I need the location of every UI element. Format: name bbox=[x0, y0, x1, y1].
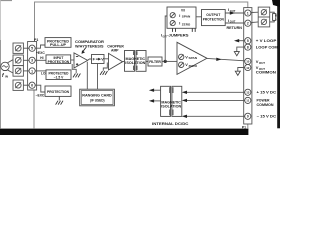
resistor RL (external load) bbox=[270, 12, 275, 13]
wire -15V to dcdc bbox=[186, 115, 245, 117]
svg-text:-JUMPERS: -JUMPERS bbox=[167, 34, 189, 38]
module outline right lower edge bbox=[247, 124, 249, 130]
chopper + input stub to ground bbox=[103, 63, 107, 71]
wire -EXC bbox=[35, 85, 45, 92]
ground hatch g1 bbox=[73, 74, 80, 78]
svg-text:FILTER: FILTER bbox=[149, 60, 161, 64]
wire ranging card to comparator area bbox=[86, 62, 88, 89]
svg-text:−EXC: −EXC bbox=[36, 94, 45, 98]
common symbol (open triangle) bbox=[234, 52, 239, 56]
ground hatch g3 bbox=[56, 101, 63, 105]
pin 9 bbox=[245, 113, 251, 119]
svg-text:− 15 V DC: − 15 V DC bbox=[257, 115, 277, 119]
svg-text:+ V LOOP: + V LOOP bbox=[256, 39, 277, 43]
wire source to screw 3 bbox=[7, 70, 13, 73]
svg-text:PROTECTION: PROTECTION bbox=[203, 17, 225, 21]
pin 3 bbox=[29, 57, 35, 63]
potentiometer V ZERO bbox=[179, 62, 184, 67]
pin 12 bbox=[245, 64, 251, 70]
svg-text:LO: LO bbox=[41, 72, 46, 76]
scan artifact: right black band bbox=[277, 0, 280, 128]
box protected pull-up bbox=[45, 38, 71, 48]
box protected -1.5V bbox=[46, 70, 71, 80]
pin 13 bbox=[245, 89, 251, 95]
pin 1 bbox=[245, 10, 251, 16]
svg-text:OUT: OUT bbox=[230, 20, 236, 24]
wire chopper to magnetic isolation bbox=[123, 61, 125, 63]
wire +15V to dcdc bbox=[186, 91, 245, 93]
wire magiso to filter bbox=[146, 60, 148, 62]
svg-text:ISOLATION: ISOLATION bbox=[161, 105, 182, 109]
source fIN (external signal source) bbox=[1, 62, 9, 70]
svg-text:+ 15 V DC: + 15 V DC bbox=[257, 91, 277, 95]
wire pin1 to screw bbox=[251, 11, 258, 13]
svg-text:IN: IN bbox=[5, 75, 8, 79]
wire +V LOOP with arrow bbox=[236, 40, 245, 42]
transformer magnetic isolation (power) bbox=[161, 86, 182, 116]
svg-text:11: 11 bbox=[246, 99, 249, 103]
wire isolated supply out 1 bbox=[154, 89, 161, 91]
svg-text:−1.5 V: −1.5 V bbox=[54, 75, 64, 79]
pin 5 bbox=[245, 38, 251, 44]
ground stub under protection box bbox=[58, 96, 60, 100]
scan artifact: bottom black band bbox=[0, 129, 248, 135]
wire HI bbox=[35, 59, 46, 61]
op-amp comparator U1 bbox=[74, 53, 88, 68]
pin 6 bbox=[29, 82, 35, 88]
screw terminal block right bbox=[258, 7, 270, 27]
common symbol (open triangle) bbox=[235, 71, 240, 75]
svg-text:5: 5 bbox=[31, 47, 33, 51]
wire filter to amp with junction bbox=[162, 60, 177, 62]
svg-text:INTERNAL DC/DC: INTERNAL DC/DC bbox=[152, 122, 189, 126]
svg-text:LOOP COM: LOOP COM bbox=[256, 46, 278, 50]
svg-text:ISOLATION: ISOLATION bbox=[125, 61, 146, 65]
op-amp chopper bbox=[109, 53, 123, 70]
transformer magnetic isolation (signal) bbox=[125, 51, 147, 72]
wires screw block to connector P1 bbox=[23, 48, 29, 85]
potentiometer V SPAN bbox=[179, 54, 184, 59]
svg-text:SPAN: SPAN bbox=[182, 15, 191, 19]
wire loop com to common triangle bbox=[237, 47, 245, 52]
jumper pins under V/I box bbox=[173, 28, 196, 32]
wire IOUT to pin 1 bbox=[225, 12, 245, 14]
wire ranging card to F/V bottom bbox=[97, 64, 99, 90]
wire comparator output to F/V bbox=[88, 59, 92, 60]
pin 11 bbox=[245, 97, 251, 103]
pin 2 bbox=[245, 20, 251, 26]
wire comparator + to -1.5V rail bbox=[72, 64, 76, 73]
svg-text:1: 1 bbox=[31, 69, 33, 73]
box output protection bbox=[202, 10, 226, 26]
pin 10 bbox=[245, 58, 251, 64]
svg-text:9: 9 bbox=[247, 115, 249, 119]
svg-text:COMMON: COMMON bbox=[256, 71, 276, 75]
svg-text:RETURN: RETURN bbox=[227, 26, 243, 30]
svg-text:COMMON: COMMON bbox=[257, 103, 274, 107]
box filter bbox=[148, 57, 162, 66]
svg-text:6: 6 bbox=[31, 84, 33, 88]
wire isolated supply out 2 bbox=[154, 100, 161, 102]
wire IOUT return to pin 2 bbox=[225, 22, 245, 24]
svg-text:3: 3 bbox=[31, 59, 33, 63]
svg-text:8: 8 bbox=[247, 46, 249, 50]
svg-text:ZERO: ZERO bbox=[182, 22, 191, 26]
svg-text:OUT: OUT bbox=[230, 9, 236, 13]
wire VOUT to pin 10 with arrow bbox=[207, 58, 245, 60]
wire source to screw 2 bbox=[7, 60, 13, 63]
svg-text:PROTECTION: PROTECTION bbox=[47, 90, 70, 94]
svg-text:AMP: AMP bbox=[111, 48, 119, 52]
svg-text:PULL-UP: PULL-UP bbox=[50, 43, 67, 47]
svg-text:PROTECTION: PROTECTION bbox=[48, 60, 70, 64]
scan artifact: top-right corner blob bbox=[272, 0, 280, 7]
svg-text:RANGING CARD: RANGING CARD bbox=[82, 94, 112, 98]
annotation arrow to comparator bbox=[83, 48, 86, 52]
scan artifact: left edge line bbox=[0, 0, 1, 40]
svg-text:+EXC: +EXC bbox=[36, 51, 45, 55]
potentiometer I SPAN bbox=[170, 13, 175, 18]
op-amp output V amp bbox=[177, 42, 207, 74]
svg-text:10: 10 bbox=[246, 60, 250, 64]
svg-text:COMPARATOR: COMPARATOR bbox=[75, 40, 104, 44]
svg-text:OUT: OUT bbox=[259, 61, 265, 65]
wire +EXC bbox=[35, 45, 45, 48]
svg-text:ZERO: ZERO bbox=[189, 64, 198, 68]
wire junction up to V/I box bbox=[165, 16, 167, 61]
svg-text:V/I: V/I bbox=[181, 8, 185, 12]
svg-text:5: 5 bbox=[247, 39, 249, 43]
ground hatch g2 bbox=[100, 71, 107, 75]
pin 5 bbox=[29, 45, 35, 51]
potentiometer I ZERO bbox=[170, 21, 175, 26]
screw terminal block left (field wiring) bbox=[13, 43, 23, 90]
svg-text:13: 13 bbox=[246, 91, 250, 95]
box input protection bbox=[46, 55, 71, 64]
wire input protection to comparator bbox=[71, 59, 74, 61]
svg-text:12: 12 bbox=[246, 66, 250, 70]
module outline left lower edge bbox=[33, 90, 35, 130]
winding marks bbox=[134, 51, 137, 70]
box F to V converter bbox=[92, 55, 105, 64]
svg-text:I: I bbox=[179, 22, 180, 26]
wire LO bbox=[35, 70, 46, 72]
pin 8 bbox=[245, 44, 251, 50]
box protection (-EXC) bbox=[45, 86, 71, 96]
wire power common to dcdc bbox=[186, 99, 245, 101]
svg-text:(IF USED): (IF USED) bbox=[90, 99, 105, 103]
wire F/V to chopper bbox=[104, 58, 109, 60]
node junction bbox=[164, 60, 167, 63]
svg-text:SPAN: SPAN bbox=[189, 56, 198, 60]
wire pin 12 to common triangle bbox=[238, 68, 245, 72]
pin 1 bbox=[29, 68, 35, 74]
box V/I converter bbox=[167, 7, 196, 28]
svg-text:W/HYSTERESIS: W/HYSTERESIS bbox=[75, 44, 104, 48]
svg-text:1: 1 bbox=[247, 11, 249, 15]
winding marks power transformer bbox=[170, 87, 173, 115]
wire ranging card verticals are above; box ranging card bbox=[80, 89, 115, 106]
module outline top rail bbox=[35, 2, 248, 42]
connector strip P1 right bbox=[244, 8, 252, 124]
wire pin2 to screw bbox=[251, 21, 258, 24]
svg-text:I: I bbox=[179, 14, 180, 18]
svg-text:HI: HI bbox=[40, 56, 43, 60]
connector strip P1 left bbox=[28, 42, 37, 91]
wire V/I to output protection bbox=[196, 16, 202, 18]
svg-text:2: 2 bbox=[247, 22, 249, 26]
scan artifact: top-left edge line bbox=[0, 0, 12, 2]
